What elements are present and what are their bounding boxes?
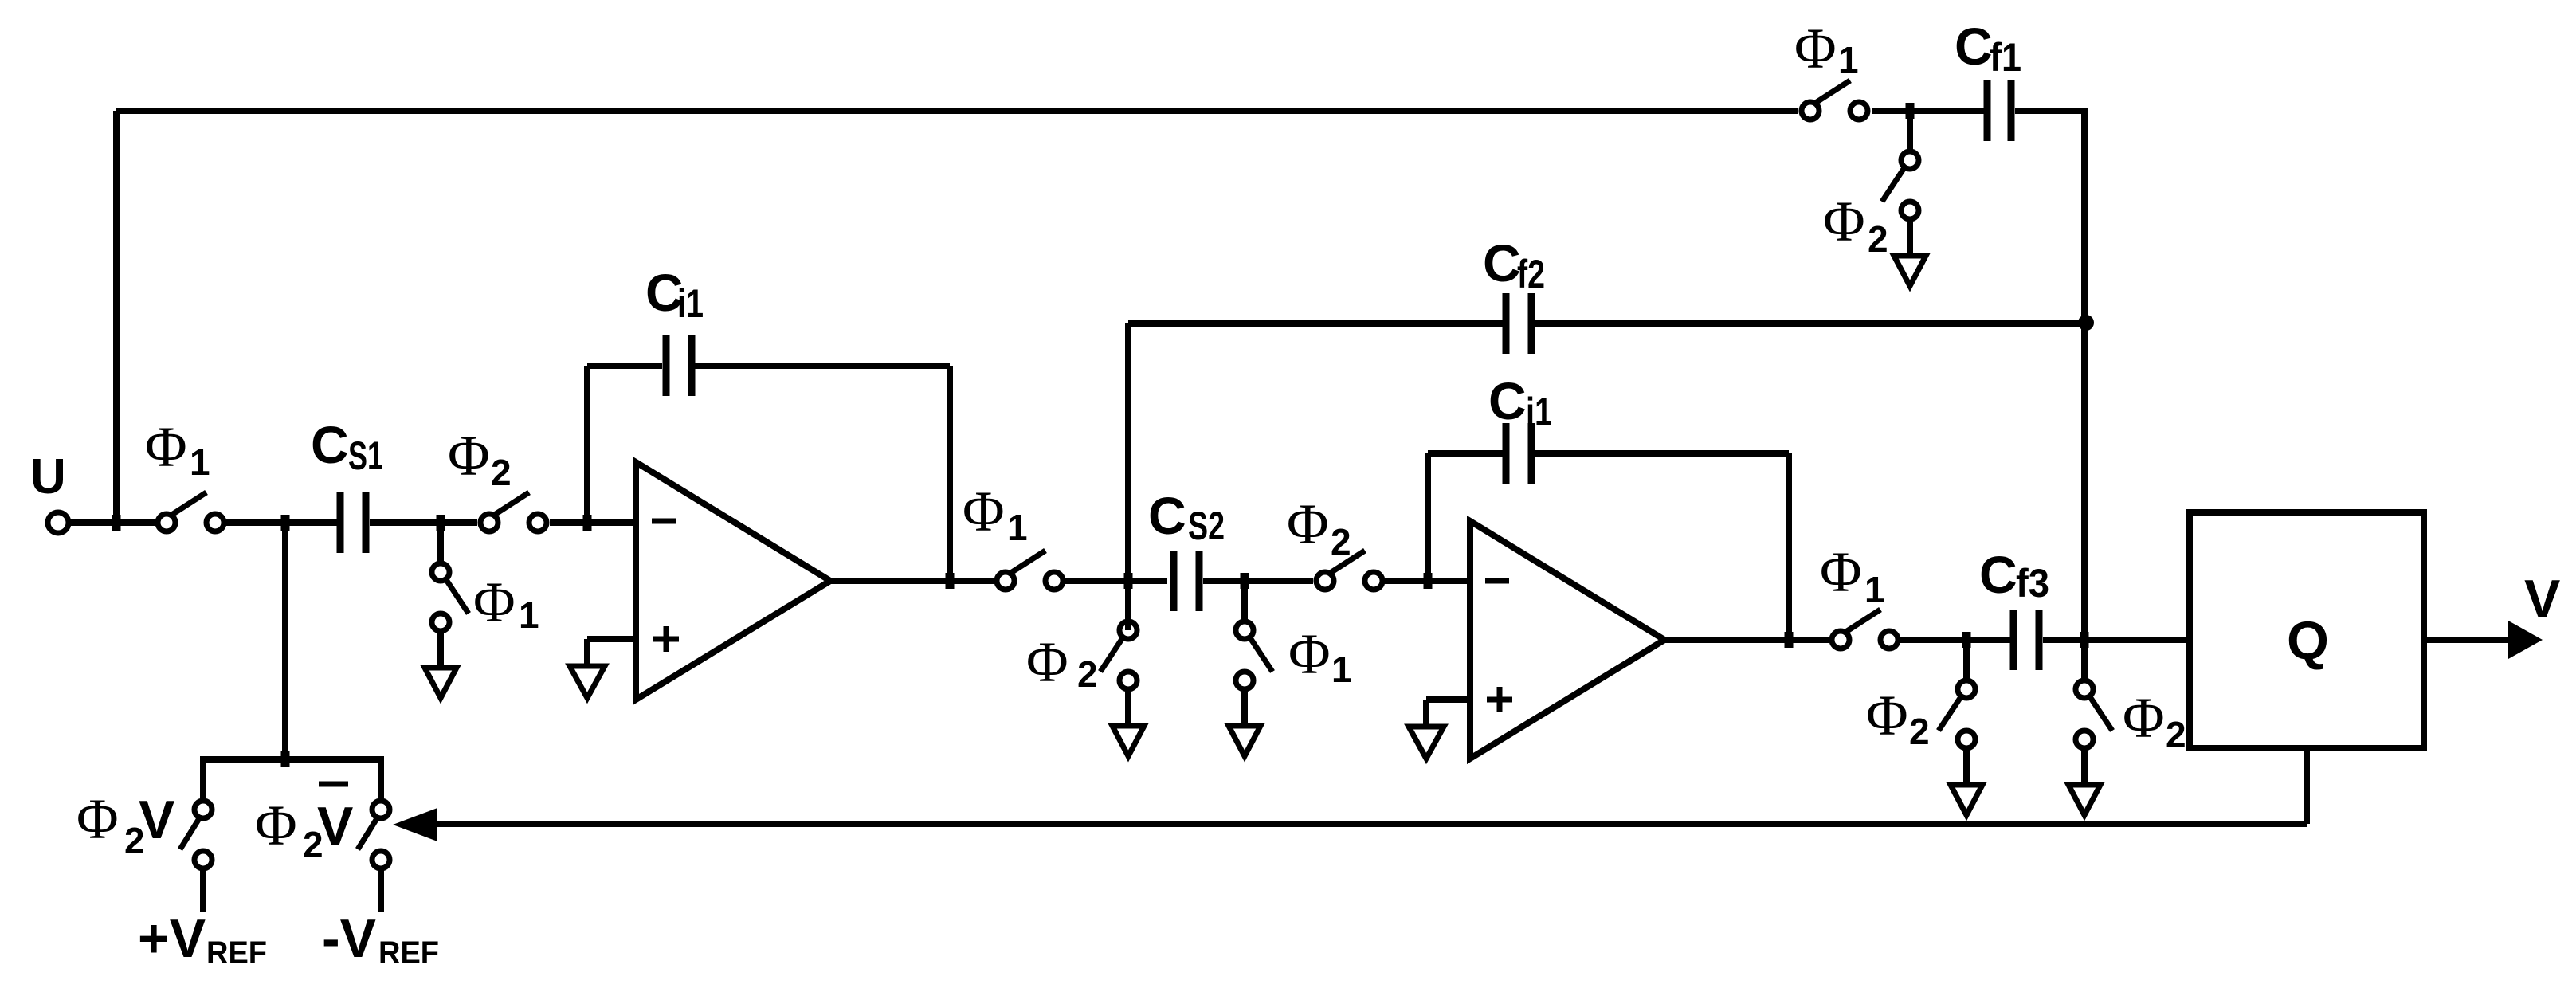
svg-text:S1: S1 <box>348 433 383 478</box>
wire VREF bar <box>200 756 381 799</box>
switch Φ2Vbar (-VREF DAC switch) <box>358 801 390 868</box>
node junction CS2 right / ground switch <box>1241 573 1249 589</box>
wire switch to CS1 <box>226 519 337 526</box>
svg-text:2: 2 <box>491 452 512 493</box>
label Φ2 top ground switch <box>1823 190 1888 260</box>
svg-text:2: 2 <box>2166 714 2186 755</box>
label Φ2 ground switch right-b <box>2123 686 2186 755</box>
svg-text:2: 2 <box>1909 711 1930 752</box>
svg-text:C: C <box>1955 17 1993 76</box>
wire junction down to VREF bar <box>282 523 288 759</box>
wire Cf2 line left <box>1128 320 1503 327</box>
svg-text:C: C <box>1483 233 1521 292</box>
svg-text:REF: REF <box>378 935 439 970</box>
label Φ1 output switch 1 <box>963 480 1028 548</box>
wire op-amp 2 output <box>1664 637 1829 643</box>
node junction Cf1 left / ground switch <box>1906 103 1915 119</box>
label CS1 <box>311 415 383 478</box>
node junction Ci1 right leg / output <box>946 573 955 589</box>
wire op-amp 1 + input to ground <box>587 639 636 666</box>
svg-text:i1: i1 <box>1526 390 1552 434</box>
node junction Cf3 left / ground switch <box>1962 632 1971 648</box>
svg-text:V: V <box>317 796 353 857</box>
label V output <box>2524 569 2560 629</box>
wire Ci1-2 left leg <box>1425 453 1431 584</box>
label Φ1 ground switch mid <box>1288 622 1352 690</box>
capacitor CS1 <box>337 492 370 553</box>
capacitor Cf3 <box>2010 610 2043 670</box>
ground op-amp 1 + input <box>570 666 605 698</box>
svg-text:C: C <box>1148 486 1186 545</box>
svg-text:i1: i1 <box>677 281 704 326</box>
capacitor Cf2 <box>1503 293 1535 354</box>
switch Φ2 (into integrator 2) <box>1316 551 1382 590</box>
node U input terminal <box>48 512 69 533</box>
switch Φ1 (integrator 1 output) <box>997 551 1063 590</box>
label Cf1 <box>1955 17 2021 80</box>
switch Φ1 to ground (CS1 right plate) <box>425 523 469 698</box>
op-amp U2 plus sign <box>1487 687 1512 712</box>
capacitor Ci1 (integrator 1) <box>663 335 696 396</box>
switch Φ2 to ground (Cf3 left) <box>1939 640 1982 815</box>
op-amp U1 plus sign <box>653 626 679 652</box>
svg-text:Φ: Φ <box>1823 190 1865 253</box>
wire op-amp 2 + input to ground <box>1426 700 1470 727</box>
op-amp U2 minus sign <box>1485 578 1509 584</box>
svg-text:Φ: Φ <box>255 794 297 857</box>
quantizer Q box <box>2190 512 2424 748</box>
svg-text:V: V <box>2524 569 2560 629</box>
svg-text:S2: S2 <box>1188 504 1225 548</box>
arrow feedback into DAC switch <box>393 808 437 841</box>
label Φ1 input switch <box>145 415 210 483</box>
wire to Cf3 <box>1900 637 2010 643</box>
node junction CS1 right / ground switch <box>437 515 445 531</box>
switch Φ2V (+VREF DAC switch) <box>180 801 212 868</box>
switch Φ1 to ground (CS2 right) <box>1229 581 1272 756</box>
switch Φ1 (input sampling switch) <box>158 492 224 531</box>
svg-text:2: 2 <box>1077 653 1098 695</box>
node junction U line / feedback tap <box>112 515 121 531</box>
label +VREF <box>138 908 267 970</box>
wire Ci1 left leg <box>584 366 590 526</box>
wire into op-amp 1 inverting input <box>550 519 636 526</box>
svg-text:Φ: Φ <box>1794 17 1837 80</box>
svg-text:+V: +V <box>138 908 206 969</box>
switch Φ2 to ground (Cf1 left) <box>1882 111 1926 286</box>
wire op-amp 1 output <box>830 578 994 584</box>
node junction to VREF branch <box>281 515 290 531</box>
label Φ2V <box>76 787 174 861</box>
svg-text:2: 2 <box>1331 521 1351 563</box>
capacitor Ci1 (integrator 2) <box>1503 423 1535 484</box>
svg-text:Φ: Φ <box>1288 622 1331 686</box>
svg-text:Φ: Φ <box>1820 540 1862 604</box>
svg-text:Φ: Φ <box>1287 492 1329 556</box>
wire Cf2 left leg <box>1125 323 1131 630</box>
wire Cf1 to right vertical <box>2015 108 2088 114</box>
svg-text:1: 1 <box>1331 649 1352 690</box>
capacitor Cf1 <box>1984 80 2015 141</box>
wire into op-amp 2 inverting input <box>1383 578 1470 584</box>
svg-text:Φ: Φ <box>1866 684 1908 747</box>
label CS2 <box>1148 486 1225 548</box>
svg-text:f1: f1 <box>1990 35 2021 80</box>
switch Φ1 (integrator 2 output) <box>1832 610 1898 649</box>
svg-text:Φ: Φ <box>473 570 516 634</box>
label Φ2 ground switch right-a <box>1866 684 1930 752</box>
label U <box>30 449 66 504</box>
node junction Cf2 left leg <box>1124 573 1133 589</box>
node junction VREF bar <box>281 751 290 767</box>
node junction Ci1 feedback tap <box>583 515 592 531</box>
label Cf3 <box>1979 545 2049 606</box>
svg-text:C: C <box>1979 545 2017 604</box>
svg-text:U: U <box>30 449 66 504</box>
wire feedback return line <box>434 821 2307 827</box>
node junction Ci1-2 feedback tap <box>1424 573 1433 589</box>
label Ci1 integrator 1 <box>645 263 704 326</box>
label Q <box>2287 610 2329 671</box>
svg-text:1: 1 <box>1838 39 1859 80</box>
svg-text:Φ: Φ <box>448 424 490 488</box>
svg-text:Φ: Φ <box>76 787 119 851</box>
node junction right vertical / output line <box>2080 632 2089 648</box>
wire quantizer output <box>2424 637 2510 643</box>
label Φ2 switch mid <box>1287 492 1351 563</box>
node junction Ci1-2 right leg / output <box>1785 632 1794 648</box>
svg-text:-V: -V <box>322 908 376 969</box>
svg-text:Q: Q <box>2287 610 2329 671</box>
wire Ci1 top right <box>695 363 950 369</box>
ground op-amp 2 + input <box>1409 727 1444 759</box>
svg-text:f2: f2 <box>1517 252 1545 296</box>
wire Ci1 top left <box>587 363 662 369</box>
svg-text:1: 1 <box>1007 507 1028 548</box>
svg-text:Φ: Φ <box>145 415 187 479</box>
label -VREF <box>322 908 439 970</box>
wire -VREF lead <box>378 870 384 912</box>
svg-text:Φ: Φ <box>2123 686 2165 750</box>
svg-text:1: 1 <box>190 441 210 483</box>
node junction Cf2 / Cf1 leg <box>2078 315 2094 331</box>
wire feedback tap vertical <box>113 111 120 527</box>
wire Cf3 to quantizer <box>2043 637 2190 643</box>
label Φ1 ground switch <box>473 570 539 636</box>
label Cf2 <box>1483 233 1545 296</box>
svg-text:V: V <box>139 790 174 850</box>
wire CS2 to Φ2 switch <box>1203 578 1313 584</box>
capacitor CS2 <box>1170 551 1203 611</box>
wire Ci1 right leg <box>947 366 953 581</box>
svg-text:1: 1 <box>519 594 539 636</box>
label Φ1 output switch 2 <box>1820 540 1885 610</box>
svg-text:f3: f3 <box>2016 561 2049 606</box>
label Φ1 top switch <box>1794 17 1859 80</box>
wire quantizer bottom leg <box>2304 748 2310 824</box>
switch Φ2 to ground (CS2 left) <box>1100 581 1144 756</box>
label Φ2 switch <box>448 424 512 493</box>
wire Ci1-2 top right <box>1535 450 1789 457</box>
switch Φ2 (into integrator 1) <box>480 492 547 531</box>
op-amp U2 (integrator 2) <box>1470 521 1664 759</box>
svg-text:Φ: Φ <box>963 480 1005 543</box>
switch Φ2 to ground (right vertical) <box>2068 640 2112 815</box>
switch Φ1 (Cf1 top feedback) <box>1802 80 1868 120</box>
svg-text:Φ: Φ <box>1026 630 1068 694</box>
wire top feedback line <box>116 108 1798 114</box>
label Ci1 integrator 2 <box>1488 371 1552 434</box>
svg-text:2: 2 <box>1868 218 1888 260</box>
wire switch to Cf1 <box>1872 108 1984 114</box>
wire to CS2 <box>1061 578 1167 584</box>
op-amp U1 minus sign <box>652 519 676 524</box>
wire Ci1-2 right leg <box>1786 453 1792 640</box>
wire VREF bar left leg <box>200 759 206 799</box>
wire U to switch <box>69 519 156 526</box>
label Φ2Vbar <box>255 784 353 865</box>
wire Cf2 line right <box>1535 320 2084 327</box>
wire +VREF lead <box>200 870 206 912</box>
svg-text:C: C <box>311 415 349 474</box>
op-amp U1 (integrator 1) <box>636 462 830 700</box>
wire Cf1 right leg vertical <box>2081 111 2088 679</box>
wire CS1 to Φ2 switch <box>370 519 477 526</box>
wire Ci1-2 top left <box>1428 450 1503 457</box>
arrow V output <box>2508 621 2543 659</box>
svg-text:C: C <box>1488 371 1527 430</box>
svg-text:REF: REF <box>206 935 267 970</box>
svg-text:1: 1 <box>1864 569 1885 610</box>
label Φ2 ground switch mid <box>1026 630 1098 695</box>
